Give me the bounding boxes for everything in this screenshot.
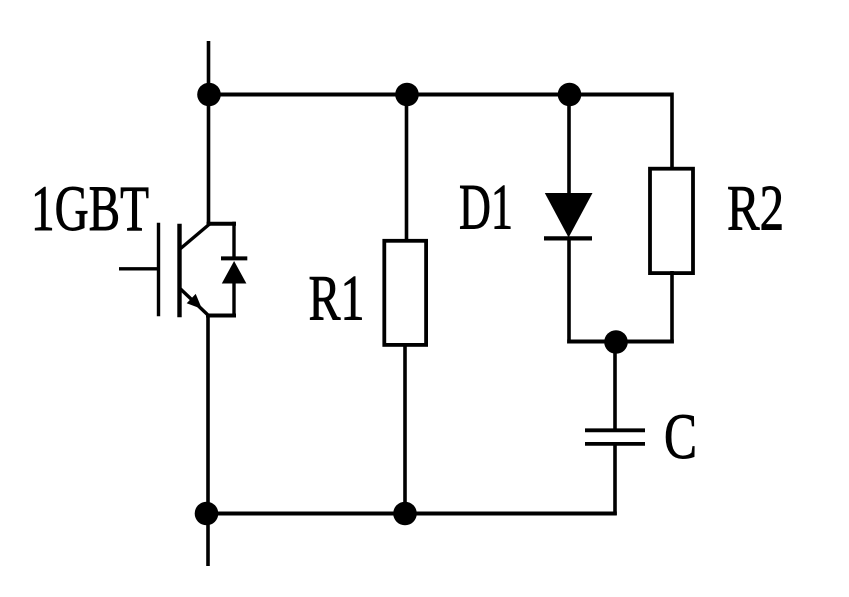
- wire: capacitor bottom lead: [613, 444, 617, 515]
- wire: R1 top lead: [405, 95, 409, 244]
- wire: top rail: [206, 93, 672, 97]
- label R2: [727, 173, 784, 245]
- node: junction top rail / D1 branch: [558, 83, 582, 107]
- wire: R2 top lead: [670, 93, 674, 172]
- diode: freewheeling diode across IGBT: [206, 222, 247, 318]
- svg-text:R2: R2: [727, 173, 784, 245]
- transistor IGBT: [119, 223, 209, 318]
- wire: bottom connector D1/R2: [567, 340, 674, 344]
- node: junction top-left (collector / top rail): [197, 83, 221, 107]
- svg-text:D1: D1: [459, 172, 513, 244]
- wire: collector vertical lead (top): [207, 41, 211, 226]
- svg-text:1GBT: 1GBT: [31, 173, 149, 245]
- node: junction bottom-left (emitter / bottom rail): [195, 502, 219, 526]
- wire: bottom rail: [204, 512, 617, 516]
- node: junction top rail / R1 branch: [395, 83, 419, 107]
- wire: D1 top lead: [567, 95, 571, 196]
- resistor R1: [384, 241, 426, 345]
- node: junction bottom rail / R1 branch: [393, 502, 417, 526]
- svg-text:R1: R1: [309, 263, 365, 335]
- svg-text:C: C: [664, 401, 697, 473]
- wire: D1 bottom lead: [567, 237, 571, 344]
- wire: R2 bottom lead: [670, 271, 674, 344]
- node: junction capacitor tap: [604, 330, 628, 354]
- label C: [664, 401, 697, 473]
- wire: capacitor top lead: [613, 342, 617, 430]
- wire: R1 bottom lead: [403, 343, 407, 515]
- diode D1: [544, 193, 593, 238]
- label D1: [459, 172, 513, 244]
- label R1: [309, 263, 365, 335]
- capacitor C: [585, 430, 645, 444]
- label 1GBT: [31, 173, 149, 245]
- wire: emitter vertical lead (bottom): [206, 316, 210, 567]
- resistor R2: [650, 169, 693, 273]
